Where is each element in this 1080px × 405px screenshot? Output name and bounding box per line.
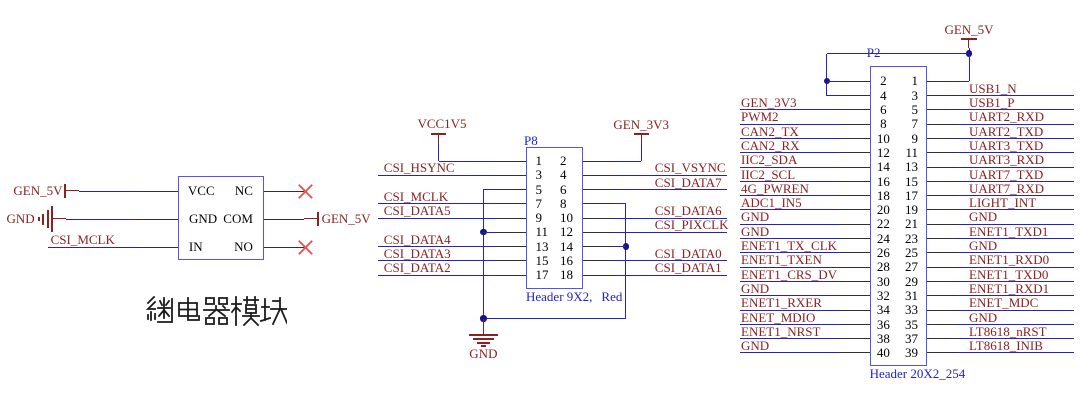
power port GEN_5V top text: [819, 23, 1080, 36]
pin number 10: [733, 132, 1033, 145]
pin number 8: [560, 197, 567, 210]
connector P8 box: [526, 147, 583, 289]
wire gnd bus bottom: [483, 318, 626, 319]
pin VCC of relay: [138, 191, 178, 192]
pin P2.24: [840, 238, 870, 239]
net label ENET1_TXEN (pin 28): [741, 253, 822, 266]
wire pin5 to gnd bus: [483, 189, 496, 190]
wire ENET1_RXD0: [957, 267, 1074, 268]
pin number 16: [733, 175, 1033, 188]
ground symbol bar2: [42, 214, 44, 225]
pin P2.33: [927, 310, 957, 311]
net label GND (pin 32): [741, 282, 769, 295]
pin number 9: [912, 132, 919, 145]
pin P2.30: [840, 281, 870, 282]
pin number 28: [733, 260, 1033, 273]
pin number 40: [733, 346, 1033, 359]
wire GND: [740, 238, 840, 239]
pin P2.28: [840, 267, 870, 268]
wire GND: [740, 224, 840, 225]
pin number 7: [912, 117, 919, 130]
pin number 13: [905, 160, 918, 173]
pin name GND: [189, 212, 217, 225]
pin GND of relay: [138, 219, 178, 220]
pin number 1: [536, 154, 543, 167]
wire CSI_MCLK to IN: [48, 247, 138, 248]
net label CSI_MCLK: [384, 190, 448, 203]
net label ENET1_RXER (pin 34): [741, 296, 822, 309]
power port GEN_5V stub: [65, 190, 79, 191]
wire GND to relay: [66, 219, 138, 220]
net label ENET1_NRST (pin 38): [741, 325, 820, 338]
pin number 2: [733, 74, 1033, 87]
pin P2.15: [927, 181, 957, 182]
pin number 25: [905, 246, 918, 259]
pin number 11: [536, 225, 549, 238]
power port GEN_5V top bar: [961, 38, 977, 40]
pin number 14: [733, 160, 1033, 173]
pin number 7: [536, 197, 543, 210]
pin P2.2: [840, 81, 870, 82]
wire GEN_3V3 to pin 2: [613, 161, 641, 162]
pin number 1: [912, 74, 919, 87]
net label GND (pin 40): [741, 339, 769, 352]
pin IN of relay: [138, 247, 178, 248]
wire GND: [957, 224, 1074, 225]
power port VCC1V5 bar: [431, 133, 446, 135]
wire GEN_5V down: [969, 48, 970, 54]
wire GEN_5V horizontal: [827, 53, 969, 54]
pin P2.5: [927, 109, 957, 110]
net label USB1_P (pin 5): [969, 96, 1015, 109]
junction at pin 2: [824, 78, 830, 84]
net label USB1_N (pin 3): [969, 82, 1017, 95]
wire CSI_DATA7: [613, 189, 727, 190]
pin P2.11: [927, 152, 957, 153]
no-connect cross on NC: [298, 184, 313, 199]
net label ENET_MDIO (pin 36): [741, 311, 815, 324]
pin P2.21: [927, 224, 957, 225]
net label GND (pin 24): [741, 225, 769, 238]
pin P8.10: [583, 218, 613, 219]
pin P8.3: [496, 175, 526, 176]
pin P2.38: [840, 338, 870, 339]
pin number 11: [905, 146, 918, 159]
pin P8.15: [496, 260, 526, 261]
power port GEN_5V stub right: [304, 218, 318, 219]
pin number 38: [733, 332, 1033, 345]
pin P2.31: [927, 295, 957, 296]
pin number 27: [905, 260, 918, 273]
net label CSI_PIXCLK: [655, 218, 729, 231]
wire ENET1_TXD1: [957, 238, 1074, 239]
pin number 31: [905, 289, 918, 302]
wire CSI_MCLK: [378, 203, 496, 204]
wire CSI_VSYNC: [613, 175, 727, 176]
net label ENET1_TXD0 (pin 29): [969, 268, 1048, 281]
wire pin11 to gnd bus: [483, 232, 496, 233]
net label ENET1_RXD1 (pin 31): [969, 282, 1049, 295]
ground bar2: [473, 338, 494, 340]
wire UART7_TXD: [957, 181, 1074, 182]
wire GND: [957, 252, 1074, 253]
pin NC of relay: [264, 191, 304, 192]
pin number 4: [733, 89, 1033, 102]
pin number 18: [733, 189, 1033, 202]
pin P8.7: [496, 203, 526, 204]
wire CSI_DATA4: [378, 246, 496, 247]
wire PWM2: [740, 124, 840, 125]
wire USB1_N: [957, 95, 1074, 96]
pin P2.34: [840, 310, 870, 311]
pin name NO: [234, 240, 253, 253]
wire UART2_RXD: [957, 124, 1074, 125]
wire left drop to pin4: [826, 54, 827, 96]
net label ENET1_TXD1 (pin 23): [969, 225, 1048, 238]
net label LT8618_INIB (pin 39): [969, 339, 1043, 352]
wire ENET1_TXEN: [740, 267, 840, 268]
wire UART3_TXD: [957, 152, 1074, 153]
wire GND: [740, 295, 840, 296]
pin number 33: [905, 303, 918, 316]
junction GEN_5V node: [966, 50, 972, 56]
pin P8.18: [583, 275, 613, 276]
pin COM of relay: [264, 219, 304, 220]
power port GEN_3V3 bar: [634, 133, 649, 135]
pin number 2: [560, 154, 567, 167]
pin number 20: [733, 203, 1033, 216]
net label CSI_DATA3: [384, 247, 451, 260]
pin number 23: [905, 232, 918, 245]
power port GEN_3V3 text: [491, 118, 791, 131]
net label UART2_TXD (pin 9): [969, 125, 1043, 138]
junction at pin 14: [623, 243, 629, 249]
pin P2.9: [927, 138, 957, 139]
net label UART2_RXD (pin 7): [969, 110, 1044, 123]
pin number 37: [905, 332, 918, 345]
wire IIC2_SDA: [740, 167, 840, 168]
ground bar4: [481, 345, 486, 347]
wire CSI_DATA2: [378, 275, 496, 276]
net label UART3_TXD (pin 11): [969, 139, 1043, 152]
net label GND (pin 22): [741, 210, 769, 223]
net label LT8618_nRST (pin 37): [969, 325, 1047, 338]
net label CSI_DATA7: [655, 176, 722, 189]
wire ENET1_NRST: [740, 338, 840, 339]
net label ADC1_IN5 (pin 20): [741, 196, 802, 209]
no-connect cross on NO: [298, 240, 313, 255]
net label ENET_MDC (pin 33): [969, 296, 1038, 309]
pin P2.10: [840, 138, 870, 139]
pin number 35: [905, 318, 918, 331]
pin P8.16: [583, 260, 613, 261]
pin P2.6: [840, 109, 870, 110]
pin number 26: [733, 246, 1033, 259]
wire UART3_RXD: [957, 167, 1074, 168]
wire CAN2_RX: [740, 152, 840, 153]
power port GEN_5V bar: [64, 184, 66, 198]
net label IIC2_SDA (pin 14): [741, 153, 797, 166]
pin number 6: [733, 103, 1033, 116]
pin number 12: [560, 225, 573, 238]
ground symbol bar4: [51, 206, 53, 232]
pin P2.23: [927, 238, 957, 239]
pin number 10: [560, 211, 573, 224]
net label 4G_PWREN (pin 18): [741, 182, 809, 195]
wire GND: [740, 352, 840, 353]
pin P2.26: [840, 252, 870, 253]
pin P8.1: [496, 161, 526, 162]
net label CSI_MCLK: [51, 233, 115, 246]
pin P2.3: [927, 95, 957, 96]
net label UART3_RXD (pin 13): [969, 153, 1044, 166]
pin number 30: [733, 275, 1033, 288]
connector P2 designator: [867, 46, 881, 59]
net label IIC2_SCL (pin 16): [741, 168, 795, 181]
pin number 39: [905, 346, 918, 359]
pin P2.14: [840, 167, 870, 168]
wire LIGHT_INT: [957, 209, 1074, 210]
ground GND text: [333, 347, 633, 360]
net label GND (pin 25): [969, 239, 997, 252]
net label CAN2_RX (pin 12): [741, 139, 800, 152]
pin P8.14: [583, 246, 613, 247]
wire UART7_RXD: [957, 195, 1074, 196]
caption 继电器模块: [145, 295, 287, 328]
pin P2.36: [840, 324, 870, 325]
ground bar3: [477, 342, 490, 344]
pin P2.18: [840, 195, 870, 196]
pin number 15: [905, 175, 918, 188]
wire VCC1V5 to pin 1: [439, 161, 496, 162]
pin number 9: [536, 211, 543, 224]
wire LT8618_INIB: [957, 352, 1074, 353]
pin P2.27: [927, 267, 957, 268]
wire CSI_DATA5: [378, 218, 496, 219]
ground symbol bar1: [38, 217, 40, 221]
net label CSI_DATA4: [384, 233, 451, 246]
pin number 5: [912, 103, 919, 116]
pin P8.17: [496, 275, 526, 276]
pin P2.1: [927, 81, 957, 82]
power port GND stub: [52, 218, 66, 219]
pin number 22: [733, 217, 1033, 230]
wire CSI_PIXCLK: [613, 232, 727, 233]
wire gnd bus left vertical: [483, 190, 484, 319]
pin name IN: [189, 240, 203, 253]
pin number 8: [733, 117, 1033, 130]
relay module box U1: [178, 176, 263, 260]
wire IIC2_SCL: [740, 181, 840, 182]
pin number 24: [733, 232, 1033, 245]
net label LIGHT_INT (pin 19): [969, 196, 1036, 209]
pin number 3: [912, 89, 919, 102]
power port VCC1V5 text: [292, 117, 592, 130]
net label CSI_DATA6: [655, 204, 722, 217]
pin P8.4: [583, 175, 613, 176]
pin number 17: [905, 189, 918, 202]
ground symbol bar3: [47, 210, 49, 228]
wire GEN_5V to pin1: [969, 54, 970, 81]
net label CSI_DATA1: [655, 261, 722, 274]
connector P2 box: [870, 66, 926, 366]
pin P2.13: [927, 167, 957, 168]
wire VCC1V5 down: [438, 143, 439, 161]
pin number 5: [536, 183, 543, 196]
pin number 32: [733, 289, 1033, 302]
pin number 21: [905, 217, 918, 230]
pin P2.8: [840, 124, 870, 125]
wire CSI_DATA1: [613, 275, 727, 276]
pin name VCC: [188, 184, 215, 197]
wire pin8 to right gnd bus: [613, 203, 626, 204]
net label ENET1_TX_CLK (pin 26): [741, 239, 837, 252]
wire ENET1_RXD1: [957, 295, 1074, 296]
pin P2.29: [927, 281, 957, 282]
pin P2.39: [927, 352, 957, 353]
ground GND stub: [483, 319, 484, 334]
pin P2.12: [840, 152, 870, 153]
wire GEN_3V3 down: [641, 143, 642, 161]
connector P8 designator: [524, 134, 538, 147]
pin P8.11: [496, 232, 526, 233]
net label CSI_HSYNC: [384, 161, 455, 174]
pin P2.7: [927, 124, 957, 125]
pin P2.37: [927, 338, 957, 339]
wire CSI_DATA6: [613, 218, 727, 219]
net label GND (pin 35): [969, 311, 997, 324]
net label CSI_DATA2: [384, 261, 451, 274]
pin number 4: [560, 168, 567, 181]
junction at pin 11: [480, 229, 486, 235]
pin number 13: [536, 240, 549, 253]
pin number 36: [733, 318, 1033, 331]
wire ENET_MDIO: [740, 324, 840, 325]
wire ENET1_CRS_DV: [740, 281, 840, 282]
pin number 16: [560, 254, 573, 267]
wire to pin 4: [827, 95, 840, 96]
pin P2.35: [927, 324, 957, 325]
junction at gnd: [480, 315, 486, 321]
pin P2.22: [840, 224, 870, 225]
net label GEN_3V3 (pin 6): [741, 96, 797, 109]
pin P2.32: [840, 295, 870, 296]
pin P8.9: [496, 218, 526, 219]
wire CAN2_TX: [740, 138, 840, 139]
pin name COM: [223, 212, 253, 225]
pin P8.13: [496, 246, 526, 247]
pin NO of relay: [264, 247, 304, 248]
net label PWM2 (pin 8): [741, 110, 779, 123]
wire ENET1_TXD0: [957, 281, 1074, 282]
pin number 18: [560, 268, 573, 281]
pin P2.20: [840, 209, 870, 210]
net label CSI_DATA5: [384, 204, 451, 217]
power port GEN_3V3 stub: [641, 134, 642, 143]
wire GEN_5V to VCC: [79, 191, 138, 192]
wire to pin 2: [827, 81, 840, 82]
wire 4G_PWREN: [740, 195, 840, 196]
power port GEN_5V bar right: [317, 212, 319, 226]
wire GND: [957, 324, 1074, 325]
net label UART7_TXD (pin 15): [969, 168, 1043, 181]
pin P8.5: [496, 189, 526, 190]
pin number 34: [733, 303, 1033, 316]
wire gnd bus right vertical: [625, 204, 626, 319]
net label ENET1_RXD0 (pin 27): [969, 253, 1049, 266]
wire USB1_P: [957, 109, 1074, 110]
pin P2.17: [927, 195, 957, 196]
pin number 17: [536, 268, 549, 281]
power port GEN_5V text: [13, 184, 62, 197]
power port GEN_5V top stub: [968, 39, 969, 48]
wire pin14 to gnd bus: [613, 246, 626, 247]
pin P8.2: [583, 161, 613, 162]
wire ENET_MDC: [957, 310, 1074, 311]
pin P2.25: [927, 252, 957, 253]
net label CSI_DATA0: [655, 247, 722, 260]
wire GEN_3V3: [740, 109, 840, 110]
wire UART2_TXD: [957, 138, 1074, 139]
pin number 14: [560, 240, 573, 253]
net label ENET1_CRS_DV (pin 30): [741, 268, 837, 281]
connector P8 value Header 9X2 Red: [526, 290, 622, 303]
net label CAN2_TX (pin 10): [741, 125, 799, 138]
pin number 12: [733, 146, 1033, 159]
pin P2.40: [840, 352, 870, 353]
wire CSI_DATA3: [378, 260, 496, 261]
connector P2 value Header 20X2_254: [870, 367, 966, 380]
pin P2.4: [840, 95, 870, 96]
wire ENET1_RXER: [740, 310, 840, 311]
pin P8.12: [583, 232, 613, 233]
pin P8.8: [583, 203, 613, 204]
net label CSI_VSYNC: [655, 161, 726, 174]
wire pin1 stub: [957, 81, 969, 82]
pin number 6: [560, 183, 567, 196]
pin P8.6: [583, 189, 613, 190]
pin number 29: [905, 275, 918, 288]
wire LT8618_nRST: [957, 338, 1074, 339]
ground bar1: [469, 334, 498, 336]
wire CSI_HSYNC: [378, 175, 496, 176]
wire ENET1_TX_CLK: [740, 252, 840, 253]
pin number 3: [536, 168, 543, 181]
power port GEN_5V text right: [322, 212, 371, 225]
wire ADC1_IN5: [740, 209, 840, 210]
power port VCC1V5 stub: [438, 134, 439, 143]
pin P2.16: [840, 181, 870, 182]
wire CSI_DATA0: [613, 260, 727, 261]
pin number 15: [536, 254, 549, 267]
pin number 19: [905, 203, 918, 216]
net label GND (pin 21): [969, 210, 997, 223]
power port GND text: [7, 212, 35, 225]
pin P2.19: [927, 209, 957, 210]
net label UART7_RXD (pin 17): [969, 182, 1044, 195]
pin name NC: [235, 184, 253, 197]
